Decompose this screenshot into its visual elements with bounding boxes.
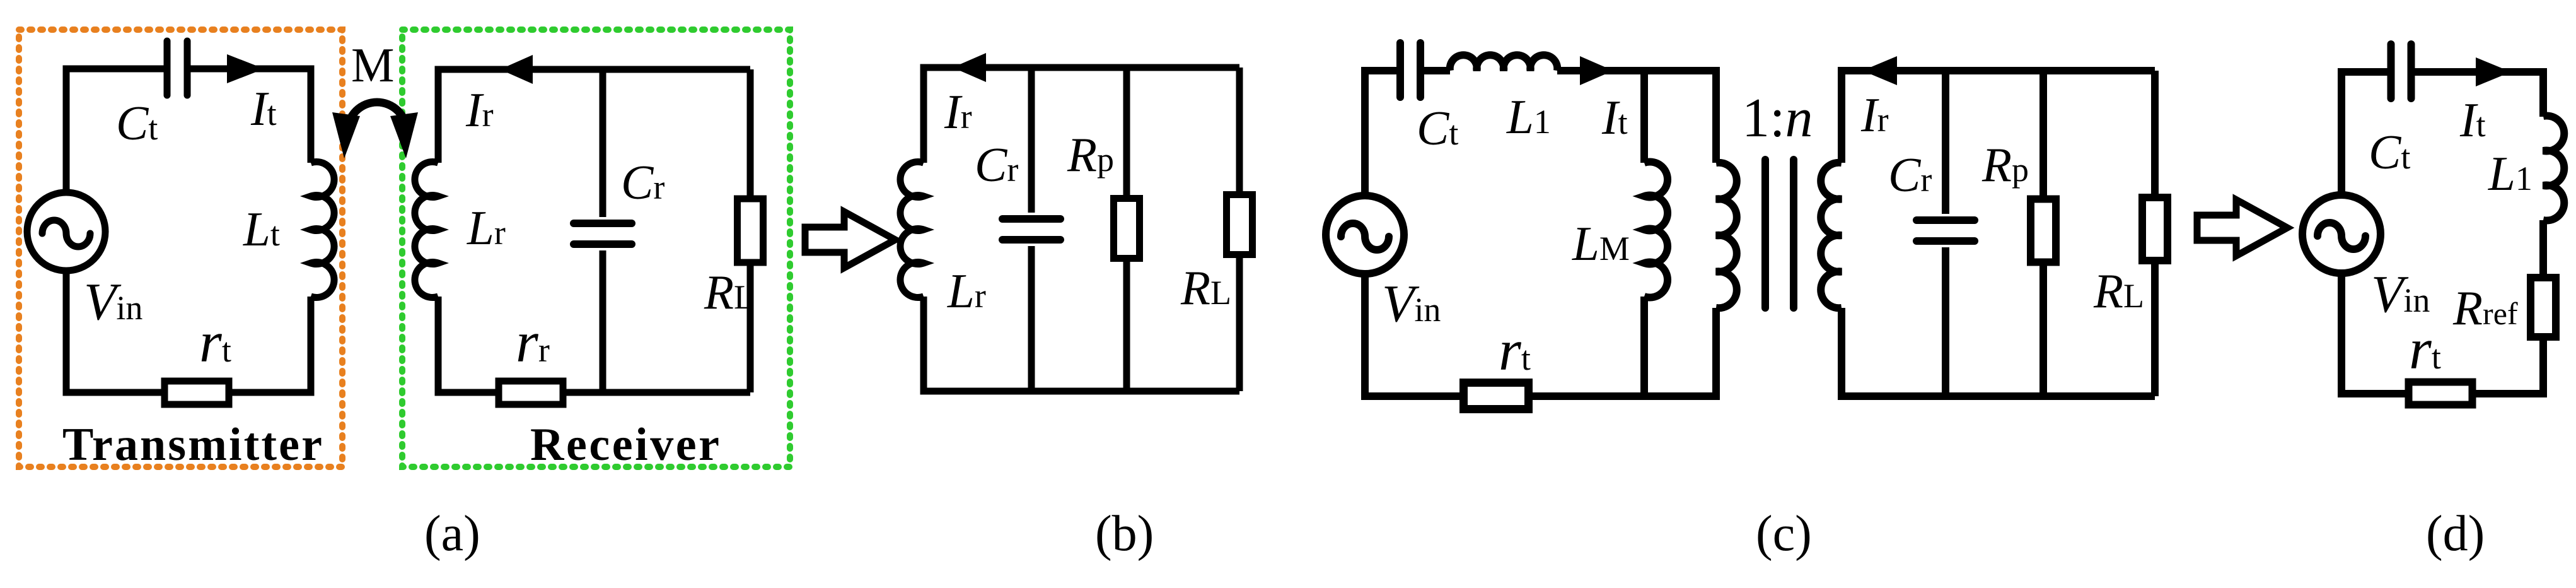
wire: fig d left branch upper xyxy=(2341,72,2388,195)
resistor rt (fig c) xyxy=(1464,383,1529,409)
wire: fig d left branch lower xyxy=(2341,273,2405,394)
wire: fig b right upper xyxy=(1236,68,1243,196)
wire: fig b Cr branch upper xyxy=(1028,68,1035,213)
wire: fig c secondary left lower xyxy=(1842,308,2155,396)
wire: fig c left branch upper xyxy=(1365,71,1401,196)
wire: transmitter top right xyxy=(187,69,311,163)
wire: receiver right upper (fig a) xyxy=(747,69,754,199)
current arrow It (fig d) xyxy=(2476,57,2511,86)
svg-text:1:n: 1:n xyxy=(1742,88,1813,149)
inductor Lr (fig a) xyxy=(415,162,438,298)
wire: fig b left lower xyxy=(924,297,1239,391)
capacitor Ct (fig c) xyxy=(1400,43,1420,97)
capacitor Ct (fig d) xyxy=(2391,44,2411,98)
wire: fig b left upper xyxy=(924,68,1239,163)
wire: transmitter bottom right xyxy=(232,297,311,392)
resistor Rref xyxy=(2531,278,2556,337)
mutual coupling arrow M xyxy=(332,102,418,158)
inductor Lt xyxy=(311,162,334,298)
svg-text:M: M xyxy=(351,38,394,92)
wire: receiver right lower (fig a) xyxy=(747,262,754,392)
transformer secondary winding xyxy=(1821,163,1842,309)
svg-text:(a): (a) xyxy=(424,506,480,562)
current arrow Ir (fig b) xyxy=(953,53,986,82)
current arrow Ir (fig c) xyxy=(1862,56,1897,85)
capacitor Cr (fig a) xyxy=(574,223,632,244)
inductor L1 (fig c) xyxy=(1450,55,1558,71)
wire: fig c top right xyxy=(1557,71,1716,163)
wire: transmitter left branch upper xyxy=(66,69,167,192)
capacitor Cr (fig c) xyxy=(1917,220,1975,241)
wire: fig c right lower xyxy=(2151,259,2159,396)
AC source Vin (fig c) xyxy=(1326,196,1404,274)
wire: inductor LM branch upper xyxy=(1640,71,1648,163)
wire: fig c Cr branch upper xyxy=(1942,71,1949,214)
wire: fig c Rp branch lower xyxy=(2039,261,2047,396)
wire: capacitor Cr branch lower (fig a) xyxy=(600,250,606,392)
wire: fig b Rp branch upper xyxy=(1123,68,1130,199)
resistor Rp (fig c) xyxy=(2031,199,2056,262)
wire: fig c Rp branch upper xyxy=(2039,71,2047,201)
resistor rr (fig a) xyxy=(499,381,563,404)
inductor LM xyxy=(1644,162,1668,298)
wire: fig d bottom right xyxy=(2476,337,2543,394)
svg-text:(d): (d) xyxy=(2426,506,2485,562)
wire: fig c top mid xyxy=(1420,67,1450,74)
wire: fig b right lower xyxy=(1236,254,1243,391)
wire: fig c secondary left upper xyxy=(1842,71,2155,163)
transformer primary winding xyxy=(1716,163,1737,309)
inductor Lr (fig b) xyxy=(900,162,924,298)
block arrow from (a) to (b) xyxy=(805,212,895,268)
wire: fig c right upper xyxy=(2151,71,2159,197)
svg-text:Transmitter: Transmitter xyxy=(62,419,322,471)
wire: fig d top right xyxy=(2411,72,2543,117)
capacitor Cr (fig b) xyxy=(1002,219,1060,240)
block arrow from (c) to (d) xyxy=(2197,200,2287,256)
resistor rt (fig a) xyxy=(165,381,229,404)
resistor rt (fig d) xyxy=(2409,382,2473,405)
current arrow Ir (fig a) xyxy=(500,55,533,84)
transformer core bars xyxy=(1765,160,1794,308)
enclosure: Transmitter boundary (orange dashed) xyxy=(19,30,342,467)
wire: receiver left upper xyxy=(438,69,750,163)
svg-text:Receiver: Receiver xyxy=(530,419,719,471)
current arrow It (fig c) xyxy=(1580,56,1613,85)
AC source Vin (fig a) xyxy=(27,192,105,271)
wire: fig c Cr branch lower xyxy=(1942,247,1949,396)
AC source Vin (fig d) xyxy=(2302,195,2381,273)
wire: fig b Cr branch lower xyxy=(1028,246,1035,391)
wire: receiver bottom right xyxy=(566,389,750,396)
capacitor Ct (fig a) xyxy=(167,41,187,95)
wire: receiver left lower xyxy=(438,297,496,392)
wire: capacitor Cr branch upper (fig a) xyxy=(600,69,606,217)
enclosure: Receiver boundary (green dashed) xyxy=(402,30,790,467)
wire: fig c bottom right xyxy=(1533,308,1716,396)
svg-text:(b): (b) xyxy=(1095,506,1154,562)
wire: inductor LM branch lower xyxy=(1640,297,1648,396)
wire: fig d right mid xyxy=(2539,220,2547,278)
wire: fig b Rp branch lower xyxy=(1123,257,1130,391)
inductor L1 (fig d) xyxy=(2543,115,2564,220)
resistor Rp (fig b) xyxy=(1114,199,1140,259)
wire: transmitter left branch lower xyxy=(66,271,161,392)
resistor RL (fig c) xyxy=(2142,197,2167,261)
resistor RL (fig a) xyxy=(738,199,763,262)
wire: fig c left branch lower xyxy=(1365,274,1459,396)
resistor RL (fig b) xyxy=(1227,195,1253,255)
current arrow It (fig a) xyxy=(227,54,264,83)
svg-text:(c): (c) xyxy=(1756,506,1812,562)
